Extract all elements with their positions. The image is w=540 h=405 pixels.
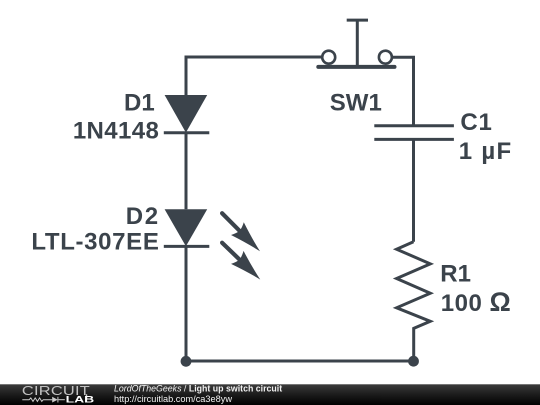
- svg-text:LordOfTheGeeks / Light up swit: LordOfTheGeeks / Light up switch circuit: [114, 384, 282, 394]
- svg-text:C1: C1: [460, 109, 492, 136]
- svg-text:LAB: LAB: [66, 394, 95, 405]
- svg-text:D2: D2: [126, 203, 160, 230]
- svg-text:SW1: SW1: [330, 90, 382, 117]
- svg-text:http://circuitlab.com/ca3e8yw: http://circuitlab.com/ca3e8yw: [114, 394, 232, 404]
- svg-text:LTL-307EE: LTL-307EE: [31, 229, 159, 256]
- svg-text:100 Ω: 100 Ω: [441, 287, 511, 317]
- svg-text:D1: D1: [124, 90, 155, 117]
- svg-text:1 µF: 1 µF: [459, 138, 513, 165]
- svg-text:1N4148: 1N4148: [73, 118, 159, 145]
- svg-text:R1: R1: [440, 261, 471, 288]
